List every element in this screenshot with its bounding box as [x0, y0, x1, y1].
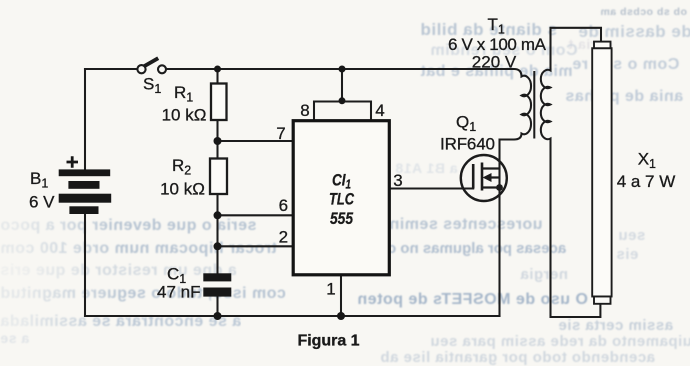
svg-text:6 V: 6 V: [29, 193, 55, 212]
svg-text:S1: S1: [143, 75, 161, 97]
svg-text:R2: R2: [172, 156, 191, 178]
svg-text:IRF640: IRF640: [440, 135, 495, 154]
svg-text:8: 8: [300, 101, 309, 120]
svg-text:R1: R1: [174, 83, 193, 105]
svg-text:Figura 1: Figura 1: [298, 332, 360, 349]
svg-text:47 nF: 47 nF: [157, 283, 200, 302]
svg-text:555: 555: [330, 209, 353, 228]
svg-text:10 kΩ: 10 kΩ: [162, 106, 207, 125]
svg-text:6 V x 100 mA: 6 V x 100 mA: [448, 35, 547, 54]
svg-text:2: 2: [279, 228, 288, 247]
svg-text:Q1: Q1: [456, 113, 476, 135]
svg-text:10 kΩ: 10 kΩ: [160, 180, 205, 199]
svg-text:4 a 7 W: 4 a 7 W: [617, 172, 676, 191]
svg-text:T1: T1: [488, 15, 505, 37]
svg-text:TLC: TLC: [329, 190, 355, 209]
svg-text:X1: X1: [638, 150, 656, 172]
svg-text:B1: B1: [30, 169, 48, 191]
svg-text:220 V: 220 V: [472, 53, 517, 72]
svg-text:4: 4: [375, 101, 384, 120]
svg-text:1: 1: [326, 280, 335, 299]
svg-text:3: 3: [393, 171, 402, 190]
svg-text:6: 6: [279, 196, 288, 215]
svg-text:7: 7: [276, 124, 285, 143]
